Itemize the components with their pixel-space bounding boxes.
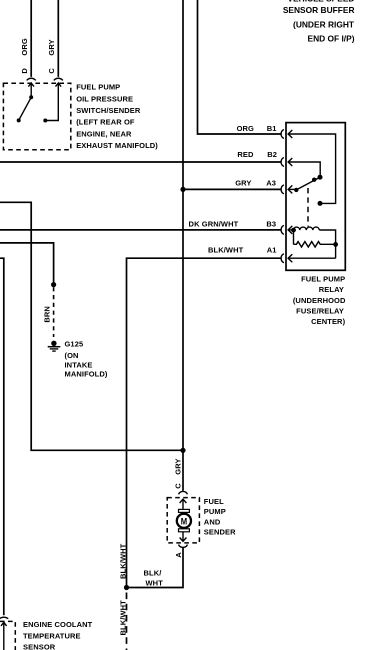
switch pivot node [29, 95, 33, 99]
svg-text:G125: G125 [65, 339, 84, 348]
svg-text:FUEL: FUEL [204, 497, 224, 506]
wire pin D to switch pivot [30, 83, 32, 97]
connector sensor pin (arc) [0, 617, 8, 619]
wire ORG vertical (from top to relay B1) [198, 0, 281, 134]
pin A1 arrow + internal wire [288, 254, 292, 262]
svg-text:BLK/WHT: BLK/WHT [119, 543, 128, 579]
connector pin B1 (arc) [281, 130, 284, 139]
svg-text:FUEL PUMP: FUEL PUMP [76, 83, 120, 92]
motor brush top [179, 509, 190, 512]
svg-text:C: C [47, 68, 56, 74]
node relay contact B2 [318, 175, 323, 180]
svg-text:D: D [20, 68, 29, 74]
svg-text:RELAY: RELAY [319, 285, 344, 294]
pin B1 arrow + internal wire to contact [288, 130, 292, 138]
pump pin C arrow (inside box) [180, 499, 187, 503]
wire GRY junction to pump [182, 450, 184, 491]
svg-text:ENGINE COOLANT: ENGINE COOLANT [23, 620, 93, 629]
label G125 [65, 339, 108, 378]
connector pin C (arc) [54, 78, 63, 80]
node resistor right junction [333, 242, 338, 247]
node GRY junction (to relay A3) [180, 187, 185, 192]
svg-text:SENSOR BUFFER: SENSOR BUFFER [283, 5, 355, 15]
label fuel pump and sender [204, 497, 236, 537]
wire GRY vertical down to pump junction [182, 189, 184, 450]
svg-text:B3: B3 [266, 219, 276, 228]
svg-text:TEMPERATURE: TEMPERATURE [23, 631, 81, 640]
svg-text:EXHAUST MANIFOLD): EXHAUST MANIFOLD) [76, 141, 158, 150]
wire BLK/WHT (relay A1 to left, down at x=126.5) [127, 258, 281, 587]
wire to engine coolant temperature sensor (left edge) [0, 258, 4, 615]
connector pin B2 (arc) [281, 158, 284, 167]
svg-text:FUSE/RELAY: FUSE/RELAY [296, 307, 344, 316]
svg-text:(LEFT REAR OF: (LEFT REAR OF [76, 118, 135, 127]
sensor pin arrow (inside box) [1, 622, 7, 626]
motor brush bottom [179, 529, 190, 532]
wire GRY branch (left edge, down at x=31) [0, 202, 183, 450]
pin B2 arrow + internal wire to contact [288, 158, 292, 166]
svg-text:GRY: GRY [47, 39, 56, 55]
wire BLK/WHT splice to pump return [127, 548, 184, 588]
wire RED (from left edge to relay B2) [0, 161, 281, 163]
node pump feed junction [180, 448, 185, 453]
wire ORG to pin D (from top) [30, 0, 32, 77]
fuel pump and sender (dashed box) [167, 498, 199, 543]
fuel pump relay (box) [286, 123, 345, 271]
svg-text:DK GRN/WHT: DK GRN/WHT [189, 219, 239, 228]
wire inside sensor box [3, 623, 5, 650]
svg-text:C: C [174, 483, 183, 489]
svg-text:BLK/WHT: BLK/WHT [208, 246, 244, 255]
pump pin A arrow (inside box, pointing down) [180, 538, 187, 542]
svg-text:GRY: GRY [174, 458, 183, 474]
pin A3 arrow + wire to pivot [288, 185, 292, 193]
connector pin A3 (arc) [281, 185, 284, 194]
resistor (relay suppression) [294, 242, 336, 247]
pin B3 arrow + wire to coil [288, 226, 292, 234]
wire pin C to motor [182, 500, 184, 510]
svg-text:BLK/WHT: BLK/WHT [119, 600, 128, 636]
connector pump pin A (arc, below box) [179, 545, 188, 548]
wire motor to pin A [182, 532, 184, 541]
wire DK GRN/WHT (from left edge to relay B3) [0, 229, 281, 231]
switch blade (open) [19, 97, 32, 120]
pin D arrow (inside box) [28, 83, 34, 87]
wire BLK/WHT dashed (below splice, off page) [126, 593, 128, 650]
svg-text:GRY: GRY [235, 178, 251, 187]
wire BRN dashed to G125 [53, 287, 55, 337]
svg-text:(ON: (ON [65, 351, 79, 360]
relay coil [293, 227, 319, 230]
label vehicle speed sensor buffer [283, 0, 355, 44]
label engine coolant temperature sensor [23, 620, 93, 650]
label fuel pump relay [293, 274, 346, 326]
node switch pivot [294, 188, 298, 192]
wire GRY vertical (from top) [182, 0, 184, 189]
label fuel pump oil pressure switch/sender [76, 83, 158, 151]
node coil left junction [291, 228, 296, 233]
motor M1 (fuel pump motor) [177, 514, 191, 528]
node BLK/WHT splice [124, 585, 129, 590]
svg-text:PUMP: PUMP [204, 507, 226, 516]
svg-text:A: A [174, 552, 183, 558]
svg-text:AND: AND [204, 517, 221, 526]
svg-text:BRN: BRN [43, 306, 52, 323]
relay switch blade [296, 178, 319, 190]
svg-text:(UNDERHOOD: (UNDERHOOD [293, 296, 346, 305]
connector pump pin C (arc) [179, 491, 188, 494]
switch contact node C [43, 119, 47, 123]
connector pin D (arc) [27, 78, 36, 80]
svg-text:CENTER): CENTER) [311, 317, 345, 326]
svg-text:VEHICLE SPEED: VEHICLE SPEED [287, 0, 354, 4]
wire GRY to pin C (from top) [57, 0, 59, 77]
svg-text:INTAKE: INTAKE [65, 360, 93, 369]
svg-text:END OF I/P): END OF I/P) [308, 34, 355, 44]
node relay contact B1 [318, 201, 323, 206]
wire pin C to contact [45, 83, 58, 120]
ground G125 [48, 341, 61, 352]
wire coil left down to resistor [293, 230, 295, 244]
svg-text:ENGINE, NEAR: ENGINE, NEAR [76, 129, 132, 138]
relay actuator dashed link [307, 188, 309, 227]
svg-text:WHT: WHT [146, 578, 164, 587]
svg-text:B1: B1 [267, 124, 277, 133]
label BLK/ WHT (two lines) [144, 569, 164, 588]
engine coolant temperature sensor (dashed box, cropped) [0, 621, 15, 650]
wire GRY to relay A3 [183, 188, 281, 190]
svg-text:A1: A1 [267, 246, 277, 255]
connector pin A1 (arc) [281, 254, 284, 263]
svg-text:ORG: ORG [20, 38, 29, 55]
svg-text:(UNDER RIGHT: (UNDER RIGHT [293, 19, 355, 29]
fuel pump oil pressure switch/sender (dashed box) [3, 83, 70, 150]
svg-text:SENDER: SENDER [204, 528, 236, 537]
svg-text:SENSOR: SENSOR [23, 642, 56, 650]
wire coil right to vertical [319, 230, 335, 258]
node on blade [312, 178, 316, 182]
wire BRN (from left edge, down at x=53.5) [0, 243, 54, 285]
svg-text:M: M [181, 517, 187, 528]
svg-text:SWITCH/SENDER: SWITCH/SENDER [76, 106, 141, 115]
node BRN splice [51, 282, 56, 287]
pin C arrow (inside box) [56, 83, 62, 87]
connector pin B3 (arc) [281, 225, 284, 234]
svg-text:OIL PRESSURE: OIL PRESSURE [76, 94, 133, 103]
svg-text:MANIFOLD): MANIFOLD) [65, 370, 108, 379]
svg-text:FUEL PUMP: FUEL PUMP [301, 274, 345, 283]
svg-text:B2: B2 [267, 150, 277, 159]
svg-text:RED: RED [237, 150, 254, 159]
svg-text:BLK/: BLK/ [144, 569, 163, 578]
switch blade tip node [17, 118, 21, 122]
svg-text:A3: A3 [266, 178, 276, 187]
svg-text:ORG: ORG [237, 124, 254, 133]
